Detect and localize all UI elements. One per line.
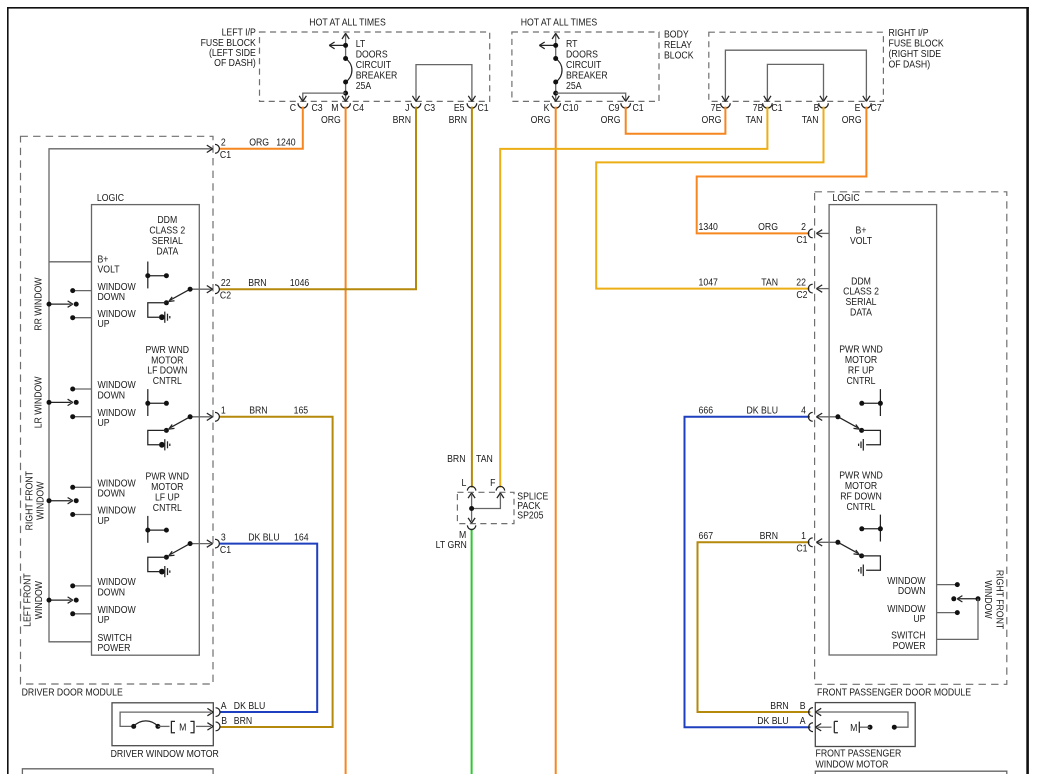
circuit breaker RT DOORS 25A [539, 33, 562, 101]
svg-text:666: 666 [699, 405, 714, 416]
connector E/C7 pin (arrow + cup) [862, 96, 872, 108]
svg-text:C3: C3 [312, 102, 323, 113]
pin labels C C3 M C4 J C3 E5 C1 [290, 102, 489, 113]
splice pack internal junction wires [469, 495, 500, 522]
svg-text:DK BLU: DK BLU [234, 701, 265, 712]
label WINDOW DOWN / WINDOW UP (left front) [98, 577, 136, 626]
svg-text:1: 1 [801, 531, 806, 542]
svg-text:C7: C7 [871, 102, 882, 113]
partial next-section box bottom right [815, 771, 1007, 774]
svg-text:DDM: DDM [157, 215, 177, 226]
svg-text:(LEFT SIDE: (LEFT SIDE [209, 48, 256, 59]
breaker value label RT DOORS CIRCUIT BREAKER 25A [566, 39, 608, 91]
DDM pin 2 C1 (arrow + cup) [207, 144, 220, 153]
svg-text:1046: 1046 [290, 278, 309, 289]
logic box U2 (front passenger door module) [829, 205, 937, 655]
svg-text:LEFT FRONT: LEFT FRONT [22, 573, 33, 627]
pin 22 C2 labels and wire label BRN 1046 [220, 278, 309, 301]
svg-text:WINDOW: WINDOW [98, 281, 136, 292]
svg-text:M: M [850, 723, 857, 734]
svg-text:OF DASH): OF DASH) [214, 58, 256, 69]
connector K/C10 pin (arrow + cup) [551, 96, 561, 108]
wire switch power bus (FPDM) [937, 599, 978, 640]
svg-text:DATA: DATA [850, 307, 873, 318]
connector C9/C1 pin (arrow + cup) [621, 96, 631, 108]
svg-text:HOT AT ALL TIMES: HOT AT ALL TIMES [309, 17, 386, 28]
svg-text:BRN: BRN [393, 115, 411, 126]
svg-text:C: C [290, 102, 297, 113]
svg-text:FRONT PASSENGER DOOR MODULE: FRONT PASSENGER DOOR MODULE [817, 687, 971, 698]
motor pin A (arrow + cup) [809, 723, 822, 732]
DDM pin 1 (arrow + cup) [190, 412, 219, 421]
passenger window motor internal circuit [818, 712, 909, 733]
FPDM pin 4 (arrow + cup) [808, 412, 838, 421]
wire color labels ORG BRN BRN [321, 115, 467, 126]
svg-text:WINDOW: WINDOW [887, 575, 925, 586]
connector B pin (arrow + cup) [819, 96, 829, 108]
svg-text:UP: UP [98, 418, 110, 429]
motor pin labels BRN B / DK BLU A [757, 700, 806, 726]
svg-text:BODY: BODY [664, 29, 689, 40]
motor pin B (arrow + cup) [809, 708, 822, 717]
svg-text:PWR WND: PWR WND [146, 344, 190, 355]
label PWR WND MOTOR LF DOWN CNTRL [146, 344, 190, 386]
svg-text:VOLT: VOLT [98, 264, 120, 275]
svg-text:WINDOW: WINDOW [98, 407, 136, 418]
label WINDOW DOWN / WINDOW UP (right front) [98, 478, 136, 526]
svg-text:ORG: ORG [842, 115, 862, 126]
right I/P fuse block dashed box [709, 32, 884, 101]
svg-text:C1: C1 [633, 102, 644, 113]
svg-text:667: 667 [699, 531, 714, 542]
svg-text:25A: 25A [566, 80, 582, 91]
svg-text:LEFT I/P: LEFT I/P [222, 27, 256, 38]
svg-text:BRN: BRN [447, 454, 465, 465]
circuit breaker LT DOORS 25A [329, 33, 352, 101]
svg-text:RIGHT FRONT: RIGHT FRONT [24, 471, 35, 531]
svg-text:CNTRL: CNTRL [153, 502, 182, 513]
FPDM pin 2 C1 (arrow + cup) [808, 229, 829, 238]
svg-text:DK BLU: DK BLU [747, 405, 778, 416]
svg-text:BRN: BRN [249, 405, 267, 416]
svg-text:2: 2 [801, 222, 806, 233]
svg-text:B+: B+ [856, 225, 867, 236]
driver door module dashed box [21, 136, 214, 684]
driver window motor internal circuit [120, 712, 211, 733]
front passenger door module dashed box [815, 192, 1007, 685]
svg-text:E5: E5 [454, 102, 465, 113]
wire breaker output to connector C9 [556, 93, 626, 101]
wire ORG: connector C9/C1 to connector 7E [626, 107, 726, 134]
svg-text:CNTRL: CNTRL [846, 375, 875, 386]
svg-text:C3: C3 [424, 102, 435, 113]
svg-text:RIGHT I/P: RIGHT I/P [889, 28, 929, 39]
svg-text:K: K [544, 102, 551, 113]
svg-text:E: E [855, 102, 861, 113]
svg-text:PWR WND: PWR WND [839, 344, 883, 355]
RR window switch cluster [47, 288, 92, 320]
node RIGHT FRONT WINDOW label [24, 471, 46, 531]
svg-text:WINDOW: WINDOW [98, 308, 136, 319]
switch: DDM class 2 serial data driver (pole to pin 22) [145, 262, 192, 323]
svg-text:F: F [490, 478, 496, 489]
label B+ VOLT [850, 225, 872, 246]
svg-text:WINDOW: WINDOW [33, 581, 44, 619]
svg-text:WINDOW: WINDOW [35, 481, 46, 519]
DDM pin 3 C1 (arrow + cup) [190, 539, 219, 548]
svg-text:B+: B+ [98, 254, 109, 265]
DDM pin 22 C2 (arrow + cup) [190, 285, 219, 294]
svg-text:1047: 1047 [699, 277, 718, 288]
svg-text:LF DOWN: LF DOWN [147, 365, 187, 376]
svg-text:A: A [800, 716, 807, 727]
svg-text:TAN: TAN [802, 115, 819, 126]
svg-text:C9: C9 [608, 102, 619, 113]
svg-text:2: 2 [221, 137, 226, 148]
svg-text:FUSE BLOCK: FUSE BLOCK [889, 38, 945, 49]
svg-text:UP: UP [913, 614, 925, 625]
svg-text:WINDOW: WINDOW [98, 478, 136, 489]
body relay block name label [664, 29, 694, 60]
svg-text:LOGIC: LOGIC [97, 192, 124, 203]
svg-text:LOGIC: LOGIC [833, 192, 860, 203]
svg-text:CLASS 2: CLASS 2 [843, 286, 879, 297]
svg-text:DDM: DDM [851, 276, 871, 287]
svg-text:M: M [179, 722, 186, 733]
svg-text:25A: 25A [356, 80, 372, 91]
svg-text:ORG: ORG [758, 222, 778, 233]
svg-text:DRIVER DOOR MODULE: DRIVER DOOR MODULE [22, 687, 123, 698]
svg-text:UP: UP [98, 319, 110, 330]
svg-text:WINDOW: WINDOW [98, 505, 136, 516]
label WINDOW DOWN / WINDOW UP (FPDM) [887, 575, 925, 624]
wire DK BLU circuit 164: DDM pin 3 C1 to driver window motor pin A [219, 544, 317, 712]
breaker value label LT DOORS CIRCUIT BREAKER 25A [356, 39, 398, 91]
svg-text:4: 4 [801, 405, 806, 416]
svg-text:C1: C1 [796, 234, 807, 245]
svg-text:C2: C2 [220, 290, 231, 301]
FPDM pin 1 C1 (arrow + cup) [808, 538, 838, 547]
motor pin labels A DK BLU / B BRN [221, 701, 265, 726]
svg-text:BLOCK: BLOCK [664, 50, 694, 61]
svg-text:SERIAL: SERIAL [152, 235, 183, 246]
svg-text:DOORS: DOORS [356, 49, 388, 60]
svg-text:RF DOWN: RF DOWN [840, 491, 882, 502]
wire BRN: connector E5/C1 to splice pack pin L [471, 107, 473, 488]
right I/P fuse block name label [889, 28, 945, 70]
svg-text:ORG: ORG [321, 115, 341, 126]
connector M/C4 pin (arrow + cup) [341, 96, 351, 108]
svg-text:TAN: TAN [476, 454, 493, 465]
pin 1 C1 labels and wire label 667 BRN [699, 531, 808, 554]
svg-text:3: 3 [221, 532, 226, 543]
svg-text:PWR WND: PWR WND [839, 470, 883, 481]
connector 7B/C1 pin (arrow + cup) [763, 96, 773, 108]
svg-text:BREAKER: BREAKER [356, 70, 398, 81]
svg-text:LR WINDOW: LR WINDOW [33, 376, 44, 428]
wire bracket J to E5 inside left fuse block [416, 65, 472, 101]
svg-text:TAN: TAN [746, 115, 763, 126]
pin 4 labels and wire label 666 DK BLU [699, 405, 807, 416]
svg-text:WINDOW: WINDOW [887, 603, 925, 614]
svg-text:BRN: BRN [770, 700, 788, 711]
splice pack name label SPLICE PACK SP205 [517, 491, 548, 521]
wire ORG: connector K/C10 down off page [555, 107, 557, 774]
label PWR WND MOTOR LF UP CNTRL [146, 471, 190, 513]
left I/P fuse block name label [201, 27, 257, 68]
svg-text:RR WINDOW: RR WINDOW [33, 277, 44, 330]
svg-text:165: 165 [294, 405, 309, 416]
splice pack SP205 dashed box [457, 492, 514, 523]
wire color labels BRN TAN above splice [447, 454, 493, 465]
svg-text:B: B [800, 700, 806, 711]
wire ORG circuit 1240: connector C to DDM pin 2 C1 [219, 107, 302, 149]
svg-text:FRONT PASSENGER: FRONT PASSENGER [816, 748, 902, 759]
svg-text:WINDOW: WINDOW [98, 380, 136, 391]
wire color labels ORG ORG [531, 115, 621, 126]
splice pin labels L F M [459, 478, 496, 540]
svg-text:WINDOW: WINDOW [983, 580, 994, 618]
right front window switch cluster (in DDM) [47, 485, 92, 517]
splice pin F (arrow + cup) [496, 486, 504, 498]
label WINDOW DOWN / WINDOW UP (RR) [98, 281, 136, 329]
svg-text:MOTOR: MOTOR [151, 355, 184, 366]
svg-text:DOWN: DOWN [898, 586, 926, 597]
svg-text:1240: 1240 [276, 137, 295, 148]
wire bracket 7E to E inside right fuse block [725, 50, 866, 100]
pin 22 C2 labels and wire label 1047 TAN [699, 277, 808, 300]
svg-text:M: M [331, 102, 338, 113]
pin 1 labels and wire label BRN 165 [221, 405, 308, 416]
wire TAN circuit 1047: connector B to FPDM pin 22 C2 [596, 107, 823, 289]
connector J/C3 pin (arrow + cup) [411, 96, 421, 108]
wire bracket 7B to B inside right fuse block [767, 64, 823, 100]
partial next-section box bottom left [22, 769, 213, 774]
node RIGHT FRONT WINDOW label (FPDM) [983, 570, 1005, 630]
svg-text:WINDOW MOTOR: WINDOW MOTOR [816, 759, 889, 770]
label SWITCH POWER [98, 633, 132, 654]
svg-text:HOT AT ALL TIMES: HOT AT ALL TIMES [521, 17, 598, 28]
pin 2 C1 labels and wire label ORG 1240 [220, 137, 296, 160]
switch: PWR WND MOTOR RF UP CNTRL (pole to pin 4) [835, 389, 883, 451]
svg-text:POWER: POWER [98, 643, 131, 654]
body relay block dashed box [512, 32, 659, 101]
label SWITCH POWER (FPDM) [891, 630, 926, 651]
front passenger window motor name label [816, 748, 902, 769]
svg-text:C1: C1 [796, 543, 807, 554]
wire ORG: connector C4 down off page [345, 107, 347, 774]
svg-text:TAN: TAN [761, 277, 778, 288]
connector 7E pin (arrow + cup) [721, 96, 731, 108]
svg-text:VOLT: VOLT [850, 235, 872, 246]
svg-text:C1: C1 [220, 150, 231, 161]
svg-text:C10: C10 [563, 102, 579, 113]
wire LT GRN: splice pack pin M down off page [471, 529, 473, 774]
svg-text:SWITCH: SWITCH [98, 633, 132, 644]
left I/P fuse block dashed box [260, 32, 490, 101]
svg-text:UP: UP [98, 515, 110, 526]
svg-text:C2: C2 [796, 290, 807, 301]
svg-text:MOTOR: MOTOR [151, 482, 184, 493]
svg-text:DRIVER WINDOW MOTOR: DRIVER WINDOW MOTOR [111, 748, 220, 759]
svg-text:7B: 7B [753, 102, 764, 113]
LR window switch cluster [47, 387, 92, 420]
svg-text:164: 164 [294, 532, 309, 543]
svg-text:7E: 7E [711, 102, 722, 113]
svg-text:WINDOW: WINDOW [98, 605, 136, 616]
switch: PWR WND MOTOR LF DOWN CNTRL (pole to pin 1) [145, 389, 192, 450]
svg-text:1340: 1340 [699, 222, 718, 233]
svg-text:CNTRL: CNTRL [846, 501, 875, 512]
svg-text:OF DASH): OF DASH) [889, 59, 931, 70]
svg-text:BRN: BRN [449, 115, 467, 126]
svg-text:DATA: DATA [156, 246, 179, 257]
wire BRN circuit 165: DDM pin 1 to driver window motor pin B [219, 417, 332, 727]
svg-text:DOWN: DOWN [98, 390, 126, 401]
wire B+ bus: pin 2 feed, B+ VOLT tap, switch power bus [49, 149, 211, 642]
svg-text:ORG: ORG [601, 115, 621, 126]
connector C pin (arrow + cup) [298, 96, 308, 108]
svg-text:CIRCUIT: CIRCUIT [356, 60, 392, 71]
svg-text:SWITCH: SWITCH [891, 630, 925, 641]
svg-text:RIGHT FRONT: RIGHT FRONT [994, 570, 1005, 630]
switch: PWR WND MOTOR LF UP CNTRL (pole to pin 3) [145, 516, 192, 577]
front passenger window motor M2 box [815, 703, 915, 747]
svg-text:A: A [221, 701, 228, 712]
label PWR WND MOTOR RF UP CNTRL [839, 344, 883, 386]
svg-text:DK BLU: DK BLU [248, 532, 279, 543]
svg-text:WINDOW: WINDOW [98, 577, 136, 588]
right front window switch cluster (in FPDM) [937, 582, 981, 615]
svg-text:PWR WND: PWR WND [146, 471, 190, 482]
svg-text:DOWN: DOWN [98, 292, 126, 303]
svg-text:MOTOR: MOTOR [845, 355, 878, 366]
svg-text:C1: C1 [771, 102, 782, 113]
pin 3 C1 labels and wire label DK BLU 164 [220, 532, 309, 555]
svg-text:RF UP: RF UP [848, 365, 874, 376]
svg-text:CNTRL: CNTRL [153, 376, 182, 387]
svg-text:B: B [814, 102, 820, 113]
logic box U1 (driver door module) [92, 205, 200, 656]
splice pin L (arrow + cup) [467, 486, 475, 498]
svg-text:CIRCUIT: CIRCUIT [566, 60, 602, 71]
splice pin M (arrow + cup) [467, 518, 475, 530]
left front window switch cluster (in DDM) [47, 583, 92, 616]
svg-text:C4: C4 [353, 102, 364, 113]
wire BRN circuit 1046: connector J/C3 to DDM pin 22 C2 [219, 107, 416, 290]
driver window motor M1 box [112, 703, 213, 746]
connector E5/C1 pin (arrow + cup) [467, 96, 477, 108]
svg-text:DOWN: DOWN [98, 488, 126, 499]
svg-text:CLASS 2: CLASS 2 [149, 225, 185, 236]
svg-text:MOTOR: MOTOR [845, 481, 878, 492]
svg-text:SERIAL: SERIAL [846, 297, 877, 308]
svg-text:LT GRN: LT GRN [436, 539, 467, 550]
svg-text:C1: C1 [478, 102, 489, 113]
svg-text:DOWN: DOWN [98, 587, 126, 598]
svg-text:RT: RT [566, 39, 578, 50]
wire DK BLU circuit 666: FPDM pin 4 to passenger window motor pin A [685, 417, 811, 727]
svg-text:UP: UP [98, 615, 110, 626]
svg-text:1: 1 [221, 405, 226, 416]
svg-text:DK BLU: DK BLU [757, 716, 788, 727]
svg-text:B: B [221, 715, 227, 726]
svg-text:RELAY: RELAY [664, 40, 692, 51]
node LEFT FRONT WINDOW label [22, 573, 44, 627]
svg-text:C1: C1 [220, 545, 231, 556]
svg-text:J: J [405, 102, 409, 113]
svg-text:ORG: ORG [702, 115, 722, 126]
svg-text:BRN: BRN [248, 278, 266, 289]
pin 2 C1 labels and wire label 1340 ORG [699, 222, 808, 245]
svg-text:POWER: POWER [893, 640, 926, 651]
svg-text:ORG: ORG [249, 137, 269, 148]
svg-text:L: L [461, 478, 466, 489]
wire ORG circuit 1340: connector E/C7 to FPDM pin 2 C1 [697, 107, 867, 234]
svg-text:M: M [459, 529, 466, 540]
svg-text:22: 22 [221, 278, 231, 289]
svg-text:DOORS: DOORS [566, 49, 598, 60]
svg-text:ORG: ORG [531, 115, 551, 126]
motor pin B (arrow + cup) [207, 722, 220, 731]
wire breaker output to connector C [303, 93, 346, 101]
svg-text:LT: LT [356, 39, 366, 50]
wire color labels ORG TAN TAN ORG [702, 115, 862, 126]
wire BRN circuit 667: FPDM pin 1 C1 to passenger window motor pin B [698, 542, 811, 712]
label PWR WND MOTOR RF DOWN CNTRL [839, 470, 883, 512]
motor pin A (arrow + cup) [207, 708, 220, 717]
label DDM CLASS 2 SERIAL DATA [843, 276, 879, 318]
svg-text:(RIGHT SIDE: (RIGHT SIDE [889, 49, 942, 60]
svg-text:BRN: BRN [760, 531, 778, 542]
label WINDOW DOWN / WINDOW UP (LR) [98, 380, 136, 428]
svg-text:22: 22 [796, 277, 806, 288]
label B+ VOLT [98, 254, 120, 275]
svg-text:SP205: SP205 [517, 510, 543, 521]
label DDM CLASS 2 SERIAL DATA [149, 215, 185, 257]
switch: PWR WND MOTOR RF DOWN CNTRL (pole to pin 1) [835, 515, 883, 577]
svg-text:BREAKER: BREAKER [566, 70, 608, 81]
pin labels 7E 7B C1 B E C7 [711, 102, 882, 113]
FPDM pin 22 C2 (arrow + cup) [808, 284, 829, 293]
wire TAN: connector 7B/C1 to splice pack pin F [500, 107, 767, 488]
svg-text:FUSE BLOCK: FUSE BLOCK [201, 37, 257, 48]
svg-text:LF UP: LF UP [155, 492, 180, 503]
pin labels K C10 C9 C1 [544, 102, 644, 113]
svg-text:BRN: BRN [234, 715, 252, 726]
